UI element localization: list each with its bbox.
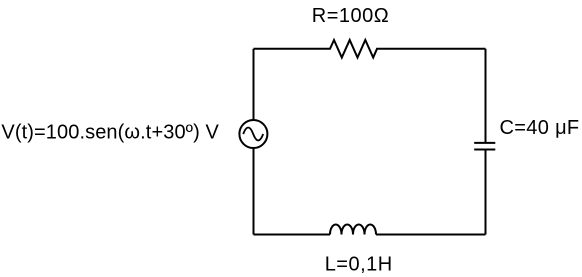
svg-text:L=0,1H: L=0,1H [325,253,393,275]
svg-text:V(t)=100.sen(ω.t+30º) V: V(t)=100.sen(ω.t+30º) V [1,121,219,143]
svg-text:R=100Ω: R=100Ω [312,5,389,27]
svg-text:C=40 μF: C=40 μF [500,117,580,139]
